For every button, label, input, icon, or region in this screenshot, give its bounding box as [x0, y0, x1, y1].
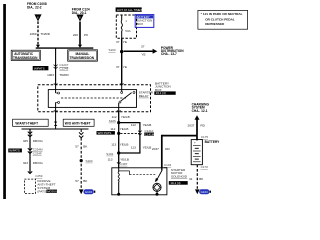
svg-text:TN/RD: TN/RD	[59, 73, 69, 77]
svg-text:SOLENOID: SOLENOID	[171, 175, 188, 179]
svg-text:HOT AT ALL TIMES: HOT AT ALL TIMES	[117, 8, 142, 12]
svg-text:* 121 IN PARK OR NEUTRAL: * 121 IN PARK OR NEUTRAL	[201, 12, 243, 16]
svg-text:BOX: BOX	[137, 22, 144, 26]
svg-text:C170: C170	[201, 165, 209, 169]
svg-text:W/PATS: W/PATS	[9, 149, 20, 153]
svg-text:325: 325	[23, 139, 28, 143]
svg-text:DIA.. 22-2: DIA.. 22-2	[27, 6, 42, 10]
svg-text:113: 113	[131, 146, 136, 150]
svg-text:YE: YE	[141, 53, 145, 57]
svg-text:C1248: C1248	[59, 67, 68, 71]
svg-text:19-1 (4): 19-1 (4)	[156, 91, 166, 95]
svg-text:C259: C259	[35, 174, 43, 178]
svg-text:CHA.. 12-1: CHA.. 12-1	[192, 109, 208, 113]
svg-text:RELAY: RELAY	[139, 94, 149, 98]
svg-text:220: 220	[73, 33, 78, 37]
svg-text:YE/LB: YE/LB	[120, 127, 129, 131]
svg-text:C134: C134	[164, 163, 172, 167]
svg-text:YE/LB: YE/LB	[143, 146, 152, 150]
svg-text:C234F: C234F	[33, 151, 42, 155]
svg-text:37: 37	[141, 44, 145, 48]
svg-text:113: 113	[108, 158, 113, 162]
svg-text:19-1 (4): 19-1 (4)	[170, 181, 180, 185]
svg-text:MODULE: MODULE	[47, 189, 59, 193]
svg-text:TRANSMISSION: TRANSMISSION	[70, 56, 95, 60]
svg-text:W/O PATS: W/O PATS	[98, 131, 112, 135]
svg-text:S103: S103	[108, 48, 115, 52]
svg-text:YE: YE	[123, 40, 127, 44]
svg-text:DB/OG: DB/OG	[33, 161, 44, 165]
svg-text:BATTERY: BATTERY	[205, 140, 221, 144]
svg-text:DEPRESSED: DEPRESSED	[205, 22, 225, 26]
svg-text:+: +	[194, 141, 196, 145]
svg-text:YE: YE	[123, 65, 127, 69]
svg-text:57: 57	[75, 144, 79, 148]
svg-text:S101: S101	[106, 152, 113, 156]
svg-text:C141M: C141M	[145, 132, 155, 136]
svg-text:31: 31	[189, 177, 193, 181]
svg-text:1069: 1069	[30, 32, 37, 36]
svg-text:G104: G104	[201, 190, 208, 194]
svg-text:57: 57	[75, 179, 79, 183]
svg-text:C187: C187	[120, 162, 128, 166]
svg-text:S106: S106	[109, 119, 116, 123]
svg-text:CHA.. 13-7: CHA.. 13-7	[161, 52, 177, 56]
svg-text:2037: 2037	[188, 123, 195, 127]
svg-text:2037: 2037	[152, 147, 159, 151]
svg-text:50A: 50A	[125, 29, 130, 33]
svg-text:RD: RD	[165, 147, 170, 151]
svg-text:YE/LB: YE/LB	[120, 142, 129, 146]
svg-text:1063: 1063	[47, 73, 54, 77]
svg-text:(PATS): (PATS)	[37, 190, 47, 194]
svg-text:S104: S104	[86, 159, 93, 163]
svg-text:37: 37	[116, 40, 120, 44]
svg-text:113: 113	[111, 142, 116, 146]
svg-text:W/O ANTI-THEFT: W/O ANTI-THEFT	[65, 121, 91, 125]
svg-text:G104: G104	[85, 190, 92, 194]
svg-text:YE/LB: YE/LB	[121, 115, 130, 119]
svg-text:YE/LB: YE/LB	[143, 123, 152, 127]
svg-text:112: 112	[131, 123, 136, 127]
svg-text:DB/OG: DB/OG	[33, 139, 44, 143]
svg-text:TRANSMISSION: TRANSMISSION	[13, 56, 38, 60]
svg-text:RD: RD	[200, 123, 205, 127]
svg-text:323: 323	[23, 161, 28, 165]
svg-text:TN/RD: TN/RD	[41, 32, 51, 36]
svg-text:W/PATS: W/PATS	[34, 67, 45, 71]
svg-text:W/ANTI-THEFT: W/ANTI-THEFT	[15, 121, 38, 125]
svg-text:C175: C175	[201, 135, 209, 139]
svg-text:OR CLUTCH PEDAL: OR CLUTCH PEDAL	[205, 17, 235, 21]
svg-text:37: 37	[116, 65, 120, 69]
svg-text:YE/LB: YE/LB	[120, 158, 129, 162]
svg-text:DIA.. 20-1: DIA.. 20-1	[72, 11, 87, 15]
